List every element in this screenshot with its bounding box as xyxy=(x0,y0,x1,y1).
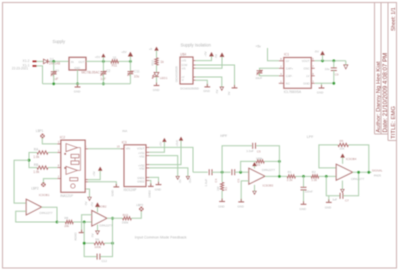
svg-text:IC3OB1: IC3OB1 xyxy=(39,193,50,197)
ground GND under U$4 xyxy=(204,84,210,87)
supply arrow up IC4B xyxy=(341,154,344,157)
wire -VS2 to -5VA xyxy=(149,168,188,176)
wire C6 to opamp xyxy=(235,171,249,173)
IC1 pin label NC xyxy=(286,82,290,86)
value ISO124P xyxy=(124,188,137,192)
svg-text:1.0k: 1.0k xyxy=(33,170,39,174)
svg-text:GND: GND xyxy=(153,88,161,92)
svg-text:R9: R9 xyxy=(95,237,99,241)
wire R3 to GND xyxy=(221,191,223,202)
name C9 xyxy=(335,72,339,76)
label GND under IC1 xyxy=(74,90,82,94)
svg-text:-5V: -5V xyxy=(314,49,319,53)
resistor R3 vertical xyxy=(221,182,224,190)
svg-text:VOUT: VOUT xyxy=(137,147,145,151)
electrode pad L$P3 label xyxy=(136,203,143,207)
resistor R11 xyxy=(111,60,119,63)
name R11 xyxy=(112,64,118,68)
wire GND rail IC1 xyxy=(315,82,334,84)
wire RA to IC2 xyxy=(48,152,57,154)
junction R9 C12 right xyxy=(111,242,114,245)
wire R9 to output leg xyxy=(105,242,113,244)
junction HPF mid node xyxy=(239,171,242,174)
IC2 internal opamp 1 xyxy=(66,144,77,152)
svg-text:CAP-: CAP- xyxy=(286,74,293,78)
svg-text:OPA2277: OPA2277 xyxy=(99,223,112,227)
svg-text:+5v: +5v xyxy=(256,44,262,48)
svg-text:1.0k: 1.0k xyxy=(33,155,39,159)
svg-text:220nF: 220nF xyxy=(305,190,313,194)
supply +5VA arrow at IC3 xyxy=(179,137,182,140)
value OPA2277 at IC4B xyxy=(351,177,364,181)
label -5V xyxy=(314,49,319,53)
junction R4 output xyxy=(278,160,281,163)
junction +5VA node xyxy=(129,60,132,63)
junction gnd rail C9 xyxy=(332,82,335,85)
wire bottom supply rail xyxy=(43,83,131,85)
svg-text:L$P2: L$P2 xyxy=(31,187,39,191)
svg-text:15: 15 xyxy=(117,144,120,148)
supply arrow up IC4A xyxy=(253,163,256,166)
supply -5V arrow at IC2 xyxy=(88,197,91,200)
supply +5V arrow LED xyxy=(155,47,158,50)
svg-text:RB: RB xyxy=(34,163,38,167)
wire VOUT to C9 xyxy=(333,61,335,68)
IC1 pin label GND xyxy=(74,66,80,70)
svg-text:DCH010505D: DCH010505D xyxy=(180,86,200,90)
supply -5V arrow xyxy=(321,52,324,55)
wire GND1 leg xyxy=(149,177,158,184)
svg-text:-5V: -5V xyxy=(214,54,218,58)
value C9 10u xyxy=(325,67,330,71)
name IC3B xyxy=(96,205,107,209)
resistor R1 xyxy=(287,175,295,178)
svg-text:+5V: +5V xyxy=(204,51,208,56)
U$4 pin label COM xyxy=(181,63,187,67)
wire IC2 out to IC3 VIN xyxy=(88,148,121,150)
IC2 internal circle xyxy=(71,184,75,188)
svg-text:-5VA: -5VA xyxy=(188,177,192,183)
svg-text:GND: GND xyxy=(218,204,224,208)
capacitor C7 xyxy=(340,193,343,199)
IC2 internal box2 xyxy=(70,178,78,181)
svg-text:CAP+: CAP+ xyxy=(286,67,294,71)
junction HPF input node xyxy=(221,171,224,174)
wire arrow to R10 xyxy=(156,51,158,58)
svg-text:LV: LV xyxy=(306,74,309,78)
wire C10 to CAP- xyxy=(260,73,279,76)
IC1 pin numbers xyxy=(280,57,314,83)
wire IC1 OUT to R11 xyxy=(86,60,111,62)
svg-text:U$4: U$4 xyxy=(180,52,186,56)
label GND under C8 xyxy=(300,207,306,211)
IC2 internal wires xyxy=(75,148,81,171)
label -5V at IC3 xyxy=(178,179,182,183)
op-amp IC4B xyxy=(336,164,352,180)
label -5VA at IC3 xyxy=(188,177,192,183)
wire IC1 GND leg xyxy=(77,70,79,84)
IC3 VIN pin number 15 xyxy=(117,144,120,148)
svg-text:R13: R13 xyxy=(123,213,129,217)
resistor RA xyxy=(37,151,48,154)
value R1 2.2k xyxy=(287,178,293,182)
svg-text:22k: 22k xyxy=(340,146,345,150)
IC1 pin label VOUT xyxy=(302,59,310,63)
label -5V at IC2 xyxy=(84,201,88,205)
ground GND under IC1 xyxy=(75,84,81,87)
svg-text:GND: GND xyxy=(325,205,331,209)
svg-text:R3: R3 xyxy=(224,187,228,191)
svg-text:GND: GND xyxy=(110,190,114,196)
svg-text:10uF: 10uF xyxy=(255,76,262,80)
svg-text:VOUT: VOUT xyxy=(302,59,310,63)
IC1 pin label LV2 xyxy=(306,74,309,78)
svg-text:+5V: +5V xyxy=(95,55,100,59)
svg-text:IC3OB3: IC3OB3 xyxy=(263,183,274,187)
supply arrow down IC3B xyxy=(96,231,100,234)
IC2 internal opamp 2 xyxy=(66,166,77,174)
wire -5V supply leg xyxy=(345,61,347,65)
op-amp IC4A xyxy=(249,168,265,184)
name U$4 xyxy=(180,52,186,56)
name RA xyxy=(34,148,39,152)
svg-text:AGND: AGND xyxy=(73,233,77,241)
name C6 xyxy=(237,178,241,182)
wire R9 branch xyxy=(84,242,94,244)
wire C2 to bottom rail xyxy=(102,74,104,84)
svg-text:-5V: -5V xyxy=(84,201,88,205)
label GND2 at IC3 xyxy=(147,190,151,198)
wire CAP+ to C10 xyxy=(260,68,279,70)
junction LPF node1 xyxy=(302,175,305,178)
ground GND1 symbol xyxy=(156,182,162,185)
junction gain loop xyxy=(28,159,31,162)
section label Supply xyxy=(53,39,66,44)
capacitor C12 xyxy=(97,254,100,260)
value RB 1.0k xyxy=(33,170,39,174)
IC2 REF stub xyxy=(85,181,88,183)
wire IC3B output xyxy=(107,217,123,219)
label GND under LED1 xyxy=(153,88,161,92)
LED LED1 xyxy=(152,73,159,79)
value R3 1M xyxy=(216,186,220,191)
name C12 xyxy=(101,259,107,263)
svg-text:2: 2 xyxy=(58,175,60,179)
electrode pad L$P1 label xyxy=(36,129,44,133)
section label Supply Isolation xyxy=(181,42,212,47)
svg-text:OUT: OUT xyxy=(78,60,84,64)
svg-text:C12: C12 xyxy=(101,259,107,263)
svg-text:1M: 1M xyxy=(216,186,220,191)
name C4 xyxy=(214,178,218,182)
name IC3 iso amp xyxy=(122,140,127,144)
ground GND at IC4B xyxy=(326,199,332,202)
ground GND at IC4A xyxy=(238,199,244,202)
junction feedback node xyxy=(83,221,86,224)
svg-text:1.0uF: 1.0uF xyxy=(204,179,208,187)
resistor RB xyxy=(37,166,48,169)
svg-text:IC1: IC1 xyxy=(284,53,289,57)
label R11 value 10 xyxy=(113,56,117,60)
svg-text:C6: C6 xyxy=(237,178,241,182)
svg-text:-V: -V xyxy=(181,78,184,82)
regulator IC1 box xyxy=(69,57,86,70)
value C4 1.0uF xyxy=(204,179,208,187)
junction buffer output xyxy=(56,221,59,224)
name R10 xyxy=(151,60,155,66)
ground GND at IC2 ref xyxy=(113,184,119,187)
svg-text:OSC: OSC xyxy=(303,67,309,71)
capacitor C5 xyxy=(253,143,256,149)
wire IC4A inverting to GND xyxy=(241,181,249,202)
net label SIGNAL xyxy=(372,168,383,177)
wire gnd leg IC1 xyxy=(321,83,323,88)
resistor R2 xyxy=(311,175,319,178)
name IC1 charge pump xyxy=(284,53,289,57)
U$4 pin label +V xyxy=(181,75,185,79)
svg-text:R1: R1 xyxy=(288,170,292,174)
svg-text:+5V: +5V xyxy=(92,171,96,176)
U$4 pin stubs xyxy=(193,61,196,81)
svg-text:R8: R8 xyxy=(64,216,68,220)
svg-text:C1: C1 xyxy=(55,69,59,73)
supply arrow down IC4A xyxy=(253,191,256,194)
name R5 xyxy=(340,139,344,143)
wire C11 to bottom rail xyxy=(129,74,131,84)
connector X1-1 pin xyxy=(33,65,37,67)
svg-text:C5: C5 xyxy=(257,150,261,154)
wire COM to DGND xyxy=(196,65,235,88)
wire +VS1 to +5V xyxy=(149,142,164,153)
U$4 pin label +VS xyxy=(181,59,186,63)
electrode pad L$P3 xyxy=(139,207,143,211)
svg-text:0V: 0V xyxy=(227,91,231,95)
svg-text:Date: 21/10/2009 4:08:07 PM: Date: 21/10/2009 4:08:07 PM xyxy=(382,53,389,133)
value R9 100k xyxy=(94,245,101,249)
svg-text:100k: 100k xyxy=(94,245,101,249)
label -5VA at U$4 xyxy=(215,90,219,94)
wire -VS to -5V arrow xyxy=(196,57,223,69)
instrumentation amp IC2 box xyxy=(61,140,85,192)
junction C1 bottom xyxy=(52,82,55,85)
value R13 330k xyxy=(122,221,129,225)
wire X1-1 leg xyxy=(37,66,43,84)
svg-text:LV: LV xyxy=(286,59,289,63)
IC1 pin label IN xyxy=(71,60,74,64)
svg-text:TITLE: EMG: TITLE: EMG xyxy=(391,106,397,139)
svg-text:20k: 20k xyxy=(64,224,69,228)
supply +5VA stem xyxy=(129,56,131,61)
resistor R5 xyxy=(338,143,348,146)
capacitor C10 xyxy=(257,70,263,75)
wire IC3 VOUT to HPF xyxy=(149,147,193,172)
junction at C1 top xyxy=(52,60,55,63)
svg-text:3: 3 xyxy=(58,140,60,144)
connector X1-1 label xyxy=(23,63,30,67)
value C7 1uF xyxy=(332,198,337,202)
label +5V at IC3B xyxy=(90,202,94,207)
capacitor C6 xyxy=(232,169,235,175)
svg-text:LPF: LPF xyxy=(307,135,314,139)
wire feedback to buffer xyxy=(14,160,29,203)
wire L$P2 to IC2 pin2 xyxy=(43,179,57,183)
svg-text:ICL7660/SA: ICL7660/SA xyxy=(284,90,302,94)
U$4 left vertical label DCH010505 xyxy=(174,66,178,82)
value RA 1.0k xyxy=(33,155,39,159)
resistor R10 xyxy=(155,58,158,65)
svg-text:IC3OB4: IC3OB4 xyxy=(346,157,357,161)
wire C9 to gnd rail xyxy=(333,71,335,84)
electrode pad L$P2 xyxy=(41,182,45,186)
wire node2 to C7 xyxy=(326,176,340,195)
svg-text:6: 6 xyxy=(85,144,87,148)
svg-text:Sheet: 1/1: Sheet: 1/1 xyxy=(391,7,397,31)
value C1 1uF xyxy=(53,77,59,81)
wire L$P1 to IC2 pin1 xyxy=(42,138,57,144)
label C2 xyxy=(106,69,110,73)
IC1 pin label OUT xyxy=(78,60,84,64)
svg-text:R11: R11 xyxy=(112,64,118,68)
title block sheet text xyxy=(391,7,397,31)
op-amp IC3B xyxy=(92,211,107,227)
wire HPF cap feedback top xyxy=(222,146,252,172)
wire RB to IC2 xyxy=(48,167,57,169)
name IC3A xyxy=(39,193,50,197)
wire IC3A output xyxy=(42,207,58,222)
value C10 10uF xyxy=(255,76,262,80)
svg-text:GND: GND xyxy=(237,205,243,209)
svg-text:10u: 10u xyxy=(325,67,330,71)
wire IC3 out to C4 xyxy=(193,171,208,173)
wire C7 to output xyxy=(343,172,358,196)
svg-text:GND: GND xyxy=(317,91,325,95)
diode D1 xyxy=(44,59,50,63)
wire gnd stub at IC4B xyxy=(328,196,330,203)
label -5V at IC3B xyxy=(90,233,94,237)
connector X1-2 label xyxy=(23,59,30,63)
svg-text:330k: 330k xyxy=(122,221,129,225)
wire C12 to output leg xyxy=(100,218,112,256)
junction C7 output xyxy=(357,171,360,174)
IC2 V- stub xyxy=(85,188,86,190)
IC1 pin label GND xyxy=(303,82,309,86)
wire C5 to output leg xyxy=(256,146,279,177)
supply +5V arrow at IC2 xyxy=(99,167,102,170)
svg-text:GND2: GND2 xyxy=(137,179,145,183)
isolation amp IC3 box xyxy=(124,145,146,187)
svg-text:+5VA: +5VA xyxy=(175,140,179,147)
value 1N4148 xyxy=(49,62,60,66)
label +5V at U$4 xyxy=(204,51,208,56)
svg-text:10u: 10u xyxy=(134,75,140,79)
junction IC3B output xyxy=(111,217,114,220)
value C8 220nF xyxy=(305,190,313,194)
title block author text xyxy=(376,61,382,132)
svg-text:1uF: 1uF xyxy=(332,198,337,202)
value OPA2277 at IC3A xyxy=(39,211,52,215)
label GND under R3 xyxy=(218,204,224,208)
value DCH010505D xyxy=(180,86,200,90)
svg-text:IC2: IC2 xyxy=(60,136,65,140)
wire R13 to L$P3 xyxy=(131,211,141,218)
svg-text:-VS2: -VS2 xyxy=(139,167,145,171)
op-amp IC3A buffer xyxy=(26,199,41,215)
wire rail to GND symbol xyxy=(77,84,79,87)
label +5V at IC2 xyxy=(92,171,96,176)
value OPA2277 at IC3B xyxy=(99,223,112,227)
wire mid node to R4 xyxy=(241,161,257,172)
IC1 pin label CAP+ xyxy=(286,67,294,71)
supply +5V arrow at IC3 xyxy=(163,139,166,142)
svg-text:+5V: +5V xyxy=(159,141,163,146)
connector X1-2 pin xyxy=(33,61,37,63)
name R3 xyxy=(224,187,228,191)
wire IC2 V+ to +5V xyxy=(88,171,100,180)
svg-text:1: 1 xyxy=(58,149,60,153)
IC3B supply stem up xyxy=(97,207,99,213)
wire C8 to GND xyxy=(303,190,305,204)
IC3 right pin stubs xyxy=(146,147,149,180)
value R5 22k xyxy=(340,146,345,150)
IC1 pin label CAP- xyxy=(286,74,293,78)
dc-dc converter U$4 box xyxy=(180,57,193,84)
junction HPF output xyxy=(278,175,281,178)
name R1 xyxy=(288,170,292,174)
svg-text:+5: +5 xyxy=(149,47,153,51)
junction +5V node xyxy=(102,60,105,63)
resistor R8 xyxy=(65,220,73,223)
wire R5 to output leg xyxy=(349,145,369,172)
value INA121P xyxy=(60,194,73,198)
title block date text xyxy=(382,53,389,133)
wire -VS1 to -5V xyxy=(149,156,177,177)
supply +5V arrow xyxy=(102,54,105,57)
wire junction to C1 xyxy=(53,61,55,71)
svg-text:8: 8 xyxy=(58,164,60,168)
wire node to C11 xyxy=(129,61,131,71)
IC1 right pin stubs xyxy=(311,61,314,84)
svg-text:C7: C7 xyxy=(345,198,349,202)
value C5 1.0uF xyxy=(246,149,254,153)
svg-text:INA: INA xyxy=(122,129,127,133)
wire R10 to LED1 xyxy=(156,65,158,72)
name IC4A xyxy=(263,183,274,187)
supply arrow up IC3B xyxy=(96,203,100,206)
IC4A supply stem up xyxy=(254,166,256,169)
name R8 xyxy=(64,216,68,220)
IC3 pin label -VS1 xyxy=(139,155,145,159)
name R13 xyxy=(123,213,129,217)
label AGND xyxy=(73,233,77,241)
wire R2 to opamp xyxy=(319,175,336,177)
label GND at IC2 ref xyxy=(110,190,114,196)
svg-text:-5V: -5V xyxy=(215,90,219,94)
wire D1 to IC1 xyxy=(50,60,69,62)
supply -5VA arrow at IC3 xyxy=(186,176,189,179)
name RB xyxy=(34,163,38,167)
label GND under U$4 xyxy=(203,89,211,93)
IC4B supply stem up xyxy=(342,157,344,163)
IC4B supply stem down xyxy=(341,181,343,190)
wire LPF output xyxy=(353,171,372,173)
supply -5V stem xyxy=(322,55,324,61)
name R2 xyxy=(312,170,316,174)
svg-text:100k: 100k xyxy=(256,156,263,160)
IC1 pin label OSC xyxy=(303,67,309,71)
wire IC3A inverting loop xyxy=(16,211,57,222)
wire IC2 REF to GND xyxy=(88,182,116,187)
svg-text:R4: R4 xyxy=(256,163,260,167)
